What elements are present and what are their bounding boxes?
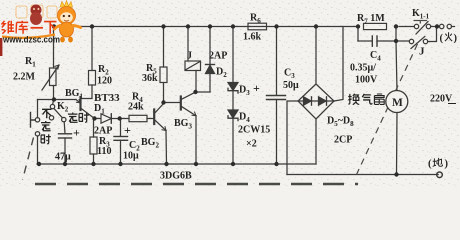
dashed mechanical linkage K1-1/J to motor and pull cord <box>357 21 428 175</box>
wire to K1-1 <box>399 26 414 28</box>
svg-text:47μ: 47μ <box>55 152 71 163</box>
wire D1 to C2/R4 node <box>111 118 129 120</box>
svg-text:10μ: 10μ <box>123 151 139 162</box>
resistor R4 body <box>129 115 147 121</box>
wire C4 left lead <box>358 40 372 42</box>
resistor R3 body <box>90 137 97 154</box>
wire R2 bottom lead to UJT B2 <box>82 85 92 99</box>
svg-text:+: + <box>253 81 260 95</box>
transistor BG2 emitter <box>155 121 166 131</box>
svg-text:+: + <box>73 126 80 140</box>
wire BG2 emitter to ground <box>165 131 168 165</box>
svg-text:J: J <box>187 51 192 62</box>
background scan paper <box>0 0 460 187</box>
resistor R1 arrow <box>42 65 59 90</box>
transistor BG1 emitter arrow <box>76 100 80 103</box>
wire C2 bottom lead <box>120 140 122 164</box>
svg-text:0.35μ/: 0.35μ/ <box>350 63 376 74</box>
transistor BG1 UJT base bar <box>79 97 81 110</box>
resistor R7 body <box>364 23 387 29</box>
zener D3 <box>228 83 238 91</box>
svg-text:100V: 100V <box>355 75 378 86</box>
transistor BG3 emitter <box>182 107 196 116</box>
svg-text:2CW15: 2CW15 <box>238 125 270 136</box>
wire R1 bottom lead <box>53 86 55 100</box>
dashed watermark frame bottom <box>23 138 34 181</box>
svg-text:220V: 220V <box>430 94 453 105</box>
terminal (地) circle <box>437 172 443 178</box>
wire UJT B1 lead <box>82 109 95 119</box>
wire R3 top lead <box>93 119 95 138</box>
wire node to D1 <box>95 118 102 120</box>
wire left pole to ground <box>37 136 39 164</box>
switch K2 throw contact (定时) <box>62 117 66 121</box>
bridge diode triangle 1 <box>304 97 312 105</box>
transistor BG3 collector <box>182 92 195 99</box>
wire D2 top lead <box>209 27 211 65</box>
wire D4 to ground <box>232 118 234 164</box>
relay contact J circles <box>409 39 413 43</box>
wire left pole drop <box>37 100 39 118</box>
svg-text:×2: ×2 <box>246 139 257 150</box>
switch contact circle lower left <box>35 132 39 136</box>
svg-text:M: M <box>392 97 403 109</box>
wire D3-D4 link <box>232 91 234 110</box>
watermark 维库一下 <box>2 21 15 34</box>
wire R1 top lead <box>53 27 55 69</box>
svg-text:www.dzsc.com: www.dzsc.com <box>2 35 60 45</box>
svg-text:R7 1M: R7 1M <box>357 13 385 26</box>
watermark outlined text 找芯片 <box>16 5 57 18</box>
svg-text:2CP: 2CP <box>334 135 352 146</box>
wire R7 right vertical <box>395 27 397 42</box>
svg-text:110: 110 <box>97 146 111 157</box>
wire C3 top lead <box>276 27 278 96</box>
svg-text:120: 120 <box>97 76 112 87</box>
wire bridge right vertex to mains drop <box>334 27 343 102</box>
switch contact circle upper left <box>35 118 39 122</box>
svg-text:3DG6B: 3DG6B <box>160 171 192 182</box>
wire BG2 collector node to BG3 base <box>164 102 181 104</box>
svg-text:J: J <box>419 46 425 58</box>
svg-text:36k: 36k <box>142 73 158 84</box>
watermark red edge tick <box>0 38 2 56</box>
watermark dzsc <box>1 1 80 57</box>
wire top supply rail <box>54 26 358 28</box>
switch K2 common lead <box>52 100 55 105</box>
resistor R1 body (rheostat) <box>50 68 57 86</box>
watermark orange mascot <box>55 1 81 43</box>
svg-text:2AP: 2AP <box>209 51 227 62</box>
wire C1 bottom lead <box>64 138 66 164</box>
capacitor C2 10u plates <box>114 136 128 138</box>
wire R5 top lead <box>163 27 165 68</box>
svg-text:(: ( <box>428 159 432 170</box>
motor M circle <box>386 91 408 113</box>
wire bridge top lead <box>315 27 317 85</box>
wire BG3 emitter to ground <box>195 116 197 164</box>
bridge diode triangle 2 <box>319 97 327 105</box>
svg-text:(: ( <box>440 33 444 44</box>
wire K2 throw to C1 <box>63 122 66 134</box>
switch K2 arm <box>54 109 62 118</box>
svg-text:): ) <box>454 33 458 44</box>
label 换气扇 <box>348 94 359 105</box>
svg-text:50μ: 50μ <box>283 80 299 91</box>
watermark maroon mascot <box>30 5 42 26</box>
svg-text:2AP: 2AP <box>94 126 112 137</box>
wire J contact branch <box>396 40 409 42</box>
wire J contact up to plug node <box>428 27 437 42</box>
bridge internal diode line <box>298 100 334 102</box>
transistor BG3 base bar <box>180 97 182 110</box>
transistor BG2 collector <box>155 103 163 113</box>
wire relay/D2/BG3 node <box>196 91 211 93</box>
wire motor bottom lead <box>396 112 399 175</box>
diode D2 2AP flyback <box>206 64 215 66</box>
label 定时 (K2 throw) <box>68 113 78 123</box>
label (地) <box>428 159 449 170</box>
wire neutral/earth bus <box>287 174 438 176</box>
label (火) <box>440 33 458 44</box>
capacitor C4 plates <box>371 36 373 46</box>
wire relay J bottom lead <box>195 71 197 93</box>
wire bridge left vertex to neutral bus <box>287 101 298 175</box>
wire D2 bottom lead <box>209 74 211 93</box>
wire motor top lead <box>396 41 397 91</box>
svg-text:+: + <box>124 123 131 137</box>
wire node line R1/C1/K2 to UJT emitter <box>38 99 77 101</box>
wire C2 top lead <box>120 119 122 137</box>
svg-text:24k: 24k <box>128 102 144 113</box>
wire DC ground bus <box>37 163 316 165</box>
bridge rectifier D5-D8 diamond <box>298 84 334 119</box>
wire R5 bottom lead <box>163 83 165 103</box>
svg-text:D5~D8: D5~D8 <box>327 116 354 129</box>
resistor R2 body <box>89 71 96 86</box>
relay J coil box <box>185 61 201 71</box>
resistor R5 body <box>160 67 167 83</box>
switch actuator bar (不定时 pushbutton) <box>31 113 36 128</box>
transistor BG2 base bar <box>153 110 155 125</box>
wire R7 left vertical <box>357 27 359 42</box>
diode D1 2AP <box>101 114 111 123</box>
wire C4 right lead <box>377 40 396 42</box>
zener D4 <box>228 110 238 118</box>
wire K1-1 to plug <box>431 26 440 28</box>
svg-text:1.6k: 1.6k <box>243 32 262 43</box>
wire R2 top lead <box>91 27 93 71</box>
svg-text:): ) <box>445 159 449 170</box>
switch K1-1 contact circles <box>414 24 418 28</box>
wire R3 bottom lead <box>93 154 95 164</box>
wire R4 to BG2 base <box>147 118 153 120</box>
relay contact J arm <box>411 37 425 49</box>
capacitor C3 50u plates <box>267 95 286 97</box>
switch K2 common contact <box>50 104 54 108</box>
wire C3 bottom lead <box>276 100 278 165</box>
svg-text:2.2M: 2.2M <box>13 72 36 83</box>
wire relay J top lead <box>187 27 189 62</box>
capacitor C1 47u plates <box>59 133 72 135</box>
wire zener branch top lead <box>232 27 234 83</box>
resistor R6 body <box>248 23 267 30</box>
switch K2 left throw contact <box>49 116 53 120</box>
switch K1-1 arm <box>416 22 428 35</box>
label 不定时 <box>42 109 51 118</box>
wire bridge bottom to DC ground <box>315 119 317 164</box>
plug terminal circles (火) <box>440 24 444 28</box>
